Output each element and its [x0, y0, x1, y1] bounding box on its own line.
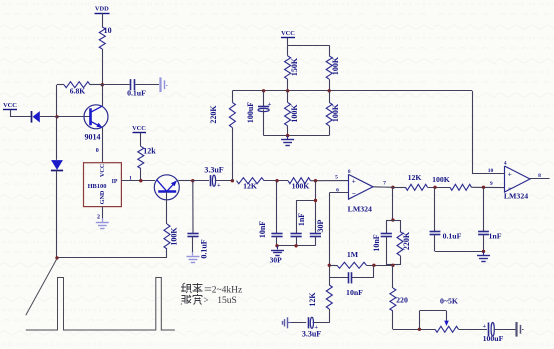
node pair top [391, 218, 394, 221]
wire [329, 309, 331, 323]
node collector/6.8K/0.1uF junction [101, 83, 104, 86]
resistor 10 (collector load) [99, 27, 105, 49]
wire bias to pin10 [472, 91, 474, 174]
svg-text:1M: 1M [347, 250, 359, 259]
node 220K bottom [231, 179, 234, 182]
bottom rail right [393, 329, 435, 331]
resistor 12K out [406, 184, 428, 190]
wire [232, 91, 234, 103]
wire [393, 187, 406, 189]
wire [276, 181, 278, 234]
wire [192, 237, 194, 256]
ground filters [483, 251, 485, 255]
wire [494, 329, 516, 331]
bias rail [232, 90, 472, 92]
svg-text:100uF: 100uF [246, 102, 255, 123]
wire output pin8 [530, 178, 550, 180]
annotation pulse waveform [26, 278, 175, 331]
transistor Q1 9014 NPN [84, 105, 108, 129]
svg-text:+: + [508, 169, 512, 178]
svg-text:30P: 30P [270, 256, 283, 265]
wire pin6 stub [329, 192, 348, 194]
wire [367, 265, 393, 267]
node 100uF top [262, 89, 265, 92]
svg-text:2~4kHz: 2~4kHz [212, 286, 242, 296]
svg-text:100K: 100K [331, 103, 340, 122]
svg-text:9: 9 [490, 181, 493, 187]
wire [288, 322, 306, 324]
node pin9 [482, 186, 485, 189]
wire [215, 180, 233, 182]
wire [102, 207, 104, 222]
svg-text:VCC: VCC [3, 102, 17, 109]
wire [102, 13, 104, 27]
resistor 12k [138, 146, 144, 168]
svg-text:220K: 220K [402, 231, 411, 250]
wire pin10 stub [472, 173, 505, 175]
wire Q1 collector up [102, 85, 104, 106]
svg-text:>: > [203, 295, 208, 305]
wire [264, 180, 288, 182]
svg-text:10nF: 10nF [346, 288, 363, 297]
svg-text:3.3uF: 3.3uF [302, 330, 321, 339]
wire [192, 181, 194, 234]
svg-text:100K: 100K [170, 227, 179, 246]
node base/diode junction [55, 115, 58, 118]
wire [56, 171, 58, 258]
svg-text:0.1uF: 0.1uF [443, 232, 462, 241]
wire [102, 49, 104, 85]
svg-text:10nF: 10nF [372, 234, 381, 251]
svg-text:100K: 100K [290, 104, 299, 123]
svg-text:VCC: VCC [99, 164, 106, 177]
svg-text:+: + [482, 323, 486, 330]
node pot left [418, 328, 421, 331]
annotation leader diagonal [26, 259, 57, 316]
capacitor 100uF bias [263, 91, 265, 106]
svg-text:100uF: 100uF [483, 334, 504, 343]
capacitor 30P [310, 233, 321, 235]
resistor 220 [390, 288, 396, 311]
node fb right [372, 264, 375, 267]
svg-text:220K: 220K [209, 105, 218, 124]
capacitor 3.3uF gain [308, 317, 310, 328]
capacitor 0.1uF to ground [187, 233, 198, 235]
svg-text:VCC: VCC [132, 125, 146, 132]
wire [10, 116, 31, 118]
op-amp U2B LM324 [505, 166, 531, 192]
svg-text:GND: GND [99, 190, 106, 204]
resistor 100K lower-right [326, 102, 332, 125]
wire [329, 45, 331, 56]
svg-text:150K: 150K [290, 57, 299, 76]
ground 0.1uF [192, 252, 194, 256]
svg-text:3.3uF: 3.3uF [204, 166, 223, 175]
wire [428, 187, 451, 189]
node 12K/100K out [433, 186, 436, 189]
svg-text:10nF: 10nF [258, 221, 267, 238]
rail caps bottom [277, 245, 315, 247]
wire [435, 251, 484, 253]
wire [140, 169, 142, 181]
capacitor 0.1uF output coupling [130, 79, 132, 90]
svg-text:12K: 12K [408, 173, 422, 182]
svg-text:100K: 100K [331, 56, 340, 75]
wire [10, 110, 12, 117]
potentiometer 0~5K [435, 326, 459, 332]
wire output pin7 [373, 186, 393, 189]
wire [315, 181, 317, 234]
svg-text:LM324: LM324 [504, 192, 528, 201]
resistor 6.8K [64, 82, 90, 88]
svg-text:IP: IP [112, 179, 118, 185]
wire [329, 265, 337, 267]
svg-text:6.8K: 6.8K [70, 87, 85, 96]
svg-text:+: + [268, 101, 272, 108]
op-amp U2A LM324 [349, 174, 374, 199]
output connector final [515, 322, 517, 337]
resistor 220K [229, 102, 235, 127]
ground caps [277, 246, 279, 250]
svg-text:12K: 12K [243, 182, 257, 191]
resistor 100K upper [326, 56, 332, 79]
rail bias bottom [264, 135, 330, 137]
svg-text:VCC: VCC [281, 30, 295, 37]
svg-text:7: 7 [383, 181, 386, 187]
resistor 100K out [450, 184, 472, 190]
svg-text:1nF: 1nF [489, 232, 502, 241]
node filter ground [482, 250, 485, 253]
svg-text:100K: 100K [432, 175, 450, 184]
capacitor 1nF [296, 200, 315, 202]
svg-text:0.1uF: 0.1uF [127, 89, 146, 98]
wire [313, 322, 330, 324]
node bottom-left junction [55, 256, 58, 259]
bottom rail left [57, 257, 167, 259]
resistor 1M feedback [337, 262, 367, 268]
capacitor 10nF feedback [329, 277, 348, 279]
node 1nF tap [314, 199, 317, 202]
svg-text:12K: 12K [308, 292, 317, 307]
svg-text:LM324: LM324 [348, 205, 372, 214]
node bias ground [286, 134, 289, 137]
svg-text:HB100: HB100 [88, 183, 107, 190]
svg-text:+: + [217, 182, 221, 189]
wire [166, 249, 168, 258]
svg-text:100K: 100K [292, 182, 310, 191]
diode D1 [31, 111, 33, 123]
output connector (IF out) [159, 77, 161, 92]
svg-text:1nF: 1nF [297, 213, 306, 226]
resistor 100K series [288, 178, 311, 184]
svg-text:0~5K: 0~5K [440, 297, 458, 306]
svg-text:15uS: 15uS [217, 296, 237, 306]
wire to Q1 base [57, 116, 90, 118]
wire [392, 311, 394, 329]
annotation frequency text [181, 283, 203, 293]
capacitor 10nF parallel 220K [392, 187, 394, 220]
svg-text:5: 5 [335, 175, 338, 181]
svg-text:2: 2 [97, 215, 100, 221]
transistor Q2 NPN buffer [154, 175, 179, 200]
wire [178, 180, 193, 182]
wire [102, 84, 129, 86]
svg-text:VDD: VDD [95, 6, 109, 13]
wire Q1 emitter down to module [102, 127, 104, 162]
resistor 100K [164, 224, 170, 249]
svg-text:8: 8 [538, 173, 541, 179]
resistor 12K series [237, 178, 265, 184]
svg-text:10: 10 [104, 26, 112, 35]
node fb left [328, 264, 331, 267]
wire [56, 117, 58, 160]
node out1 [391, 186, 394, 189]
svg-text:−: − [352, 189, 356, 198]
ground module [102, 218, 104, 222]
capacitor 10nF input [271, 233, 282, 235]
wire to pin9 [472, 186, 505, 188]
wire inverting node vertical [329, 193, 331, 285]
svg-text:30P: 30P [316, 219, 325, 232]
node Q2 emitter [191, 179, 194, 182]
capacitor 0.1uF filter [434, 187, 436, 231]
wire [56, 85, 58, 117]
wire [90, 84, 102, 86]
wire [135, 84, 159, 86]
wire Q2 base down [166, 192, 168, 224]
svg-text:+: + [352, 176, 356, 185]
node 12K/100K/10nF [275, 179, 278, 182]
ground sideways [288, 322, 291, 324]
wire [392, 265, 394, 288]
module U1 HB100 [84, 163, 122, 207]
wire [232, 128, 234, 181]
wire [459, 329, 488, 331]
top rail [288, 45, 330, 47]
ground bias [287, 136, 289, 140]
wire [57, 84, 64, 86]
wire [40, 116, 57, 118]
svg-text:9014: 9014 [85, 133, 101, 142]
wire IP to Q2 [121, 180, 155, 182]
resistor 100K lower-left [285, 102, 291, 125]
annotation pulse width text [181, 294, 202, 305]
wire to pin5 [311, 180, 349, 182]
svg-text:12k: 12k [143, 147, 156, 156]
resistor 220K parallel [400, 220, 402, 232]
node 12k/IP [139, 179, 142, 182]
resistor 150K [285, 56, 291, 79]
node pin5/30P [314, 179, 317, 182]
node pair bottom [391, 264, 394, 267]
svg-text:0: 0 [96, 148, 99, 154]
capacitor 1nF filter [483, 187, 485, 231]
resistor 12K gain [326, 285, 332, 309]
svg-text:0.1uF: 0.1uF [200, 239, 209, 258]
svg-text:220: 220 [396, 296, 408, 305]
